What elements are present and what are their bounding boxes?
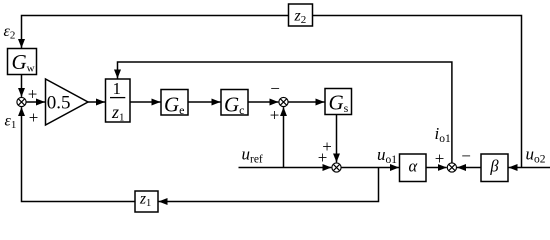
svg-text:+: + [29, 108, 39, 127]
svg-text:β: β [489, 157, 499, 176]
svg-text:0.5: 0.5 [47, 93, 71, 114]
wire 1/z1 to Ge [130, 101, 161, 103]
wire S2 to Gs [288, 101, 324, 103]
block z1 box [135, 191, 158, 212]
wire beta output left into S4 [457, 167, 481, 169]
label 1/z1 fraction [110, 79, 125, 123]
summing junction S4 [447, 163, 456, 172]
svg-text:+: + [435, 149, 445, 168]
wire uref branch up to S2 [283, 107, 285, 167]
wire Gs output down to summing node S3 [336, 115, 338, 163]
wire alpha to summing node S4 [426, 167, 447, 169]
block alpha box [400, 154, 427, 182]
block 1/z1 box [106, 79, 131, 122]
summing junction S3 [332, 163, 341, 172]
wire uref input to S3 [239, 167, 332, 169]
wire feedback from node S4 up and left into top of 1/z1 [118, 62, 452, 163]
wire triangle to block 1/z1 [88, 101, 105, 103]
svg-text:+: + [28, 84, 38, 103]
block z2 box [289, 4, 313, 26]
svg-text:−: − [461, 147, 471, 166]
wire z1 output left and up into S1 [22, 107, 136, 201]
svg-text:+: + [270, 105, 280, 124]
wire S1 to gain triangle [26, 101, 45, 103]
svg-text:+: + [318, 148, 328, 167]
wire S3 to alpha (uo1) [341, 167, 399, 169]
block Gw box [8, 49, 37, 75]
wire Gc to summing node S2 [248, 101, 278, 103]
svg-text:1: 1 [113, 79, 122, 98]
wire top feedback rail (uo2 branch up, through z2, down to Gw) [22, 16, 522, 168]
block Ge box [161, 90, 188, 116]
block Gs box [325, 89, 352, 115]
block beta box [481, 154, 508, 182]
wire bottom feedback from uo1 down and left into z1 [159, 168, 379, 202]
svg-text:α: α [408, 157, 417, 176]
summing junction S2 [279, 97, 288, 106]
block Gc box [221, 90, 248, 116]
gain triangle 0.5 [46, 79, 89, 125]
wire uo2 input into beta [509, 167, 550, 169]
summing junction S1 [17, 97, 26, 106]
wire Gw output down to summing node S1 [21, 75, 23, 97]
wire Ge to Gc [188, 101, 221, 103]
svg-text:−: − [270, 79, 280, 98]
